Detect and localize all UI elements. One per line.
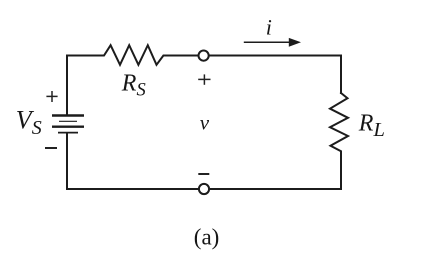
svg-text:RL: RL bbox=[358, 110, 385, 140]
svg-text:RS: RS bbox=[121, 70, 146, 100]
svg-text:VS: VS bbox=[16, 106, 42, 140]
svg-text:v: v bbox=[200, 111, 210, 135]
svg-text:i: i bbox=[266, 14, 272, 39]
svg-text:(a): (a) bbox=[194, 224, 220, 249]
